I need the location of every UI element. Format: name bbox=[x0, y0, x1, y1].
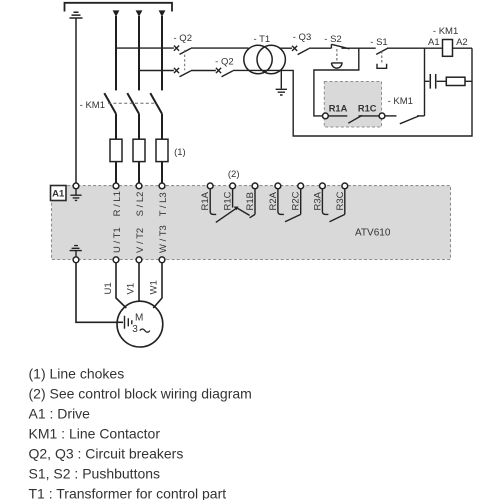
svg-text:V1: V1 bbox=[125, 283, 136, 295]
svg-text:R2C: R2C bbox=[291, 191, 302, 210]
svg-text:- KM1: - KM1 bbox=[388, 96, 413, 107]
svg-text:(2) See control block wiring d: (2) See control block wiring diagram bbox=[29, 385, 252, 401]
svg-text:ATV610: ATV610 bbox=[355, 228, 391, 239]
svg-text:(2): (2) bbox=[228, 169, 240, 180]
svg-text:S1, S2 : Pushbuttons: S1, S2 : Pushbuttons bbox=[29, 466, 161, 482]
svg-text:R3C: R3C bbox=[335, 191, 346, 210]
svg-text:A1 : Drive: A1 : Drive bbox=[29, 406, 91, 422]
svg-text:- KM1: - KM1 bbox=[433, 26, 458, 37]
svg-text:U1: U1 bbox=[103, 282, 114, 294]
svg-text:W1: W1 bbox=[149, 280, 160, 294]
svg-text:- Q3: - Q3 bbox=[293, 32, 311, 43]
svg-text:R1A: R1A bbox=[329, 104, 348, 114]
svg-text:R1C: R1C bbox=[223, 191, 234, 210]
svg-text:R1B: R1B bbox=[245, 192, 256, 210]
svg-text:M: M bbox=[135, 313, 143, 324]
svg-text:(1): (1) bbox=[174, 147, 186, 158]
svg-text:- T1: - T1 bbox=[253, 34, 270, 45]
svg-text:R1A: R1A bbox=[200, 191, 211, 210]
svg-text:- S2: - S2 bbox=[324, 34, 341, 45]
svg-text:U / T1: U / T1 bbox=[112, 227, 123, 253]
svg-text:(1) Line chokes: (1) Line chokes bbox=[29, 365, 125, 381]
svg-text:- Q2: - Q2 bbox=[215, 57, 233, 68]
svg-text:R / L1: R / L1 bbox=[112, 191, 123, 216]
svg-text:KM1 : Line Contactor: KM1 : Line Contactor bbox=[29, 426, 161, 442]
svg-text:- S1: - S1 bbox=[370, 37, 387, 48]
svg-text:A1: A1 bbox=[428, 37, 440, 48]
svg-text:- KM1: - KM1 bbox=[80, 100, 105, 111]
svg-text:R2A: R2A bbox=[268, 191, 279, 210]
svg-text:A1: A1 bbox=[52, 188, 65, 199]
svg-text:R3A: R3A bbox=[312, 191, 323, 210]
svg-text:T1 : Transformer for control p: T1 : Transformer for control part bbox=[29, 486, 227, 500]
svg-text:A2: A2 bbox=[456, 37, 468, 48]
svg-text:Q2, Q3 : Circuit breakers: Q2, Q3 : Circuit breakers bbox=[29, 446, 184, 462]
svg-text:3: 3 bbox=[132, 324, 138, 335]
svg-text:V / T2: V / T2 bbox=[135, 228, 146, 253]
svg-text:S / L2: S / L2 bbox=[135, 192, 146, 217]
svg-text:T / L3: T / L3 bbox=[158, 192, 169, 216]
svg-text:W / T3: W / T3 bbox=[158, 225, 169, 253]
svg-text:R1C: R1C bbox=[358, 104, 377, 114]
svg-text:- Q2: - Q2 bbox=[174, 33, 192, 44]
